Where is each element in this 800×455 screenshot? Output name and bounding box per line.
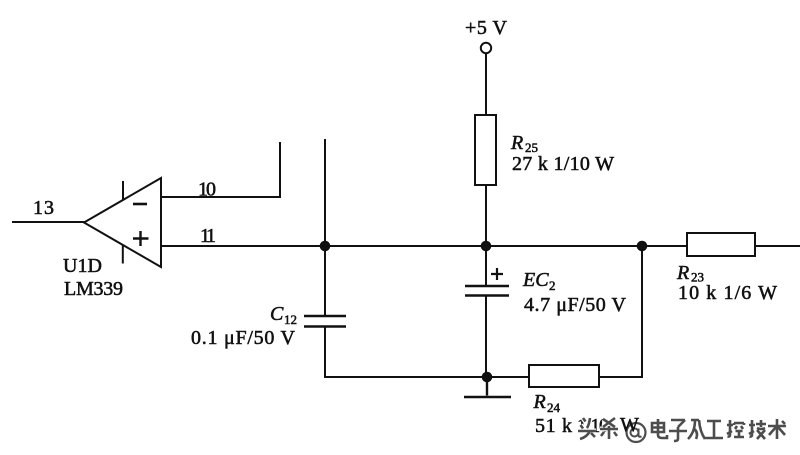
svg-text:R: R [676, 262, 689, 284]
svg-text:4.7 μF/50 V: 4.7 μF/50 V [524, 294, 627, 316]
wire pin 11 main horizontal net [161, 245, 687, 247]
junction dot ground node [482, 372, 493, 383]
watermark glyph ji4 [749, 420, 766, 439]
junction dot node C [637, 241, 648, 252]
svg-text:R: R [510, 132, 523, 154]
op-amp U1D (LM339 comparator triangle) [84, 178, 161, 267]
watermark glyph ji2 [688, 420, 705, 439]
wire C12 bottom to bottom rail [325, 327, 529, 378]
watermark glyph dian [652, 419, 667, 438]
svg-text:EC: EC [522, 269, 549, 291]
+5 V supply terminal [481, 43, 491, 53]
junction dot node A [320, 241, 331, 252]
capacitor C12 [304, 316, 346, 327]
wire R25 to node B [485, 185, 487, 246]
wire node B down to EC2 [485, 246, 487, 286]
wire pin 10 with open stub up [161, 142, 280, 197]
ground [464, 377, 511, 397]
svg-text:+5 V: +5 V [465, 17, 508, 39]
wire open stub above node A down to C12 [324, 139, 326, 316]
svg-text:12: 12 [284, 312, 297, 327]
op-amp bottom power tick [122, 245, 124, 264]
watermark glyph gong [705, 421, 723, 438]
svg-text:13: 13 [33, 197, 54, 219]
svg-text:11: 11 [200, 225, 216, 247]
resistor R23 [687, 233, 755, 256]
svg-text:24: 24 [547, 400, 561, 415]
capacitor EC2 (electrolytic) [465, 286, 509, 296]
svg-text:0.1 μF/50 V: 0.1 μF/50 V [191, 327, 296, 349]
svg-text:27 k 1/10 W: 27 k 1/10 W [512, 153, 614, 175]
wire EC2 bottom to ground node [485, 296, 487, 378]
op-amp non-inverting input mark (plus) [133, 231, 149, 246]
wire output pin 13 [12, 221, 85, 223]
svg-text:R: R [533, 391, 546, 413]
svg-text:LM339: LM339 [64, 278, 123, 300]
wire R24 right up to node C [599, 246, 642, 377]
watermark glyph tou [578, 418, 596, 439]
wire R23 to right edge [755, 245, 800, 247]
svg-text:W: W [620, 414, 639, 436]
watermark glyph at-sign [627, 423, 646, 442]
svg-text:C: C [270, 303, 284, 325]
svg-text:51 k: 51 k [535, 415, 572, 437]
op-amp top power tick [122, 181, 124, 200]
EC2 polarity plus sign [491, 268, 503, 280]
resistor R24 [529, 365, 599, 387]
svg-text:U1D: U1D [63, 255, 102, 277]
watermark glyph kong [727, 420, 744, 437]
svg-text:2: 2 [549, 278, 556, 293]
junction dot node B [481, 241, 492, 252]
wire +5V terminal to R25 [485, 54, 487, 116]
watermark glyph zi [669, 420, 687, 441]
resistor R25 [475, 115, 496, 185]
op-amp inverting input mark (minus) [133, 203, 147, 206]
watermark glyph tiao [600, 418, 618, 439]
watermark glyph shu [768, 419, 786, 439]
svg-text:10 k 1/6 W: 10 k 1/6 W [678, 282, 777, 304]
